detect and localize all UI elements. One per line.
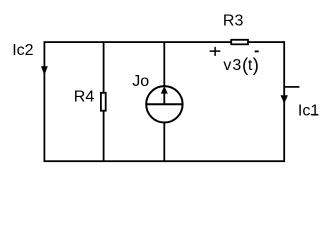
svg-text:Jo: Jo (132, 73, 149, 90)
current source Jo (132, 73, 183, 123)
current arrow Ic1 (right wire, pointing down, with tick) (281, 87, 320, 120)
wire R4 branch (vertical) (103, 42, 105, 161)
svg-text:R3: R3 (223, 13, 244, 30)
polarity minus mark (255, 50, 259, 52)
value label v3(t) (223, 54, 259, 75)
resistor R4 (74, 89, 106, 111)
current arrow Ic2 (left wire, pointing down) (12, 42, 48, 75)
svg-text:v3: v3 (223, 57, 242, 74)
svg-text:Ic1: Ic1 (298, 103, 319, 120)
wire Jo branch (vertical) (163, 42, 165, 161)
polarity plus mark (210, 47, 221, 56)
resistor R3 (223, 13, 248, 45)
svg-text:R4: R4 (74, 89, 95, 106)
svg-text:Ic2: Ic2 (12, 42, 33, 59)
wire outer loop (top/right/bottom/left nets) (44, 42, 284, 161)
svg-text:): ) (253, 54, 259, 75)
